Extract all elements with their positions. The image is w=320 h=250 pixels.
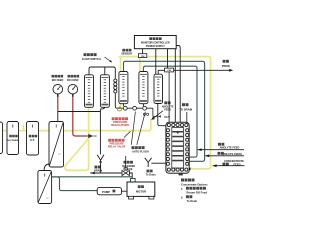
- svg-text:CM: CM: [167, 70, 171, 72]
- svg-text:PUMP: PUMP: [102, 190, 110, 194]
- svg-text:REGULATORS: REGULATORS: [111, 123, 129, 127]
- svg-text:EDI FEED: EDI FEED: [52, 79, 64, 82]
- svg-text:TO DRAIN: TO DRAIN: [179, 107, 192, 111]
- svg-text:To Drain: To Drain: [187, 199, 198, 203]
- svg-text:1.: 1.: [181, 187, 183, 191]
- svg-text:PROD: PROD: [222, 64, 230, 68]
- svg-text:OUT: OUT: [164, 115, 170, 119]
- svg-text:DRAIN: DRAIN: [94, 169, 102, 173]
- svg-text:Return RO Feed: Return RO Feed: [187, 190, 208, 194]
- svg-text:FEED: FEED: [164, 108, 171, 111]
- svg-text:SENSOR: SENSOR: [121, 53, 132, 56]
- svg-text:(DILUTE FEED): (DILUTE FEED): [223, 152, 242, 156]
- svg-text:ANOLYTE FEED: ANOLYTE FEED: [220, 146, 240, 150]
- svg-text:To Drain: To Drain: [146, 174, 156, 177]
- svg-text:CM: CM: [141, 56, 145, 58]
- svg-text:POWER SUPPLY: POWER SUPPLY: [146, 45, 165, 48]
- svg-text:FLOW SWITCH: FLOW SWITCH: [82, 57, 101, 61]
- svg-text:SOFTENER: SOFTENER: [7, 140, 18, 142]
- svg-text:H.P.: H.P.: [30, 140, 35, 142]
- svg-text:RELAY VALVE: RELAY VALVE: [108, 145, 126, 149]
- svg-text:AUTO FLUSH: AUTO FLUSH: [132, 149, 149, 153]
- svg-text:FEED: FEED: [234, 162, 241, 166]
- svg-text:MOTOR: MOTOR: [136, 190, 146, 194]
- svg-text:Concentrate Options: Concentrate Options: [181, 182, 208, 186]
- svg-text:RO CONC: RO CONC: [67, 79, 79, 82]
- svg-text:2.: 2.: [181, 195, 183, 199]
- svg-text:VALVE: VALVE: [125, 168, 133, 171]
